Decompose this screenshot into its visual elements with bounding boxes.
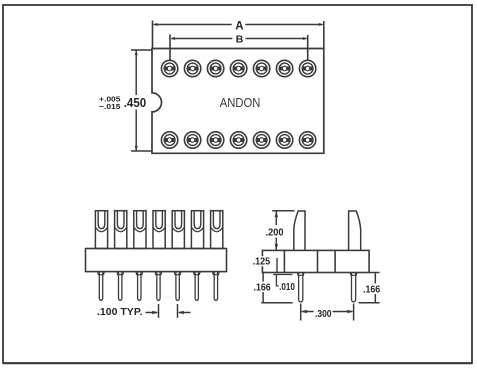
svg-text:B: B	[236, 33, 244, 45]
svg-text:.100 TYP.: .100 TYP.	[97, 307, 143, 318]
svg-text:.010: .010	[279, 282, 295, 293]
svg-text:.200: .200	[266, 227, 284, 239]
svg-text:ANDON: ANDON	[220, 95, 261, 110]
svg-text:A: A	[235, 20, 243, 32]
svg-text:.300: .300	[315, 308, 332, 320]
svg-text:.166: .166	[363, 284, 380, 295]
svg-text:.166: .166	[254, 282, 271, 293]
svg-text:−.015: −.015	[99, 102, 121, 111]
svg-text:.450: .450	[124, 96, 147, 110]
svg-text:.125: .125	[253, 256, 271, 267]
